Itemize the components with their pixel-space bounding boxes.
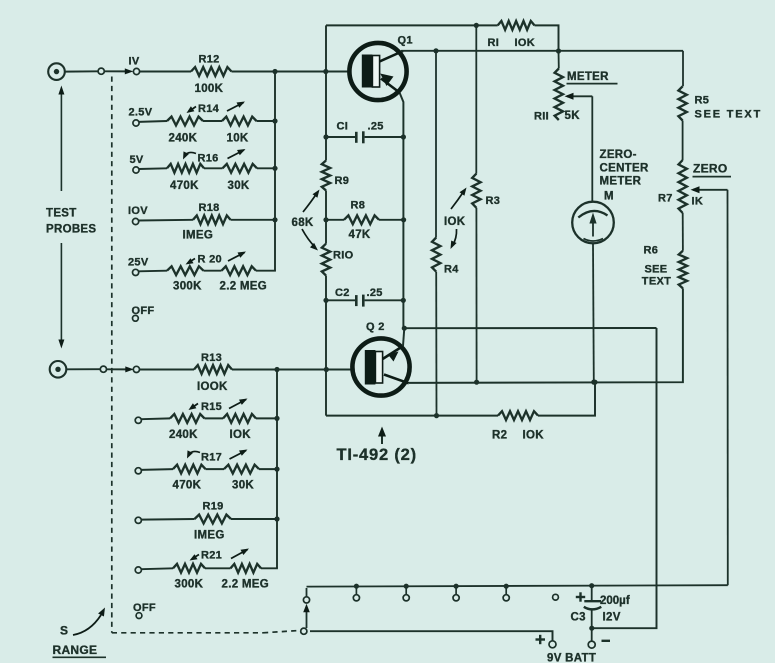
wire jack2 to switch: [67, 368, 101, 370]
junction C3 bottom: [589, 626, 594, 631]
svg-text:2.2 MEG: 2.2 MEG: [222, 579, 269, 591]
contact circle rowB4: [135, 517, 141, 523]
probes pointer line upper: [60, 92, 62, 191]
wire R14 to bus: [257, 120, 276, 122]
junction R8 left rail: [323, 217, 328, 222]
contact circle rowB2: [135, 417, 141, 423]
svg-text:R9: R9: [335, 175, 350, 187]
svg-text:RIO: RIO: [333, 250, 354, 262]
switch pole lower circle: [301, 628, 307, 634]
junction emitter rail bottom: [402, 326, 407, 331]
svg-text:R15: R15: [201, 401, 222, 413]
svg-text:RANGE: RANGE: [53, 643, 98, 657]
junction bus row2: [272, 118, 277, 123]
arrow R21 left: [193, 555, 200, 559]
wire R15 to bus: [256, 417, 277, 419]
svg-text:R12: R12: [199, 54, 220, 66]
R3 line lower segment: [475, 208, 477, 382]
wiper arrowhead row2: [125, 366, 134, 372]
svg-text:TI-492 (2): TI-492 (2): [337, 446, 417, 464]
wire R16 mid: [204, 167, 223, 169]
svg-text:OFF: OFF: [132, 305, 155, 317]
capacitor C3 plates: [584, 600, 601, 602]
svg-text:5V: 5V: [130, 154, 144, 166]
R11 top lead: [558, 51, 560, 69]
wire C1 left: [326, 136, 355, 138]
svg-text:M: M: [604, 191, 614, 203]
junction top bus R3 line: [474, 23, 479, 28]
resistor R1 10K: [498, 21, 535, 30]
svg-text:TEXT: TEXT: [642, 276, 671, 288]
wiper drop to meter: [591, 96, 593, 201]
resistor R2 10K: [498, 411, 538, 420]
svg-text:300K: 300K: [175, 579, 204, 591]
wire C2 right: [365, 299, 404, 301]
contact OFF circle bottom: [136, 613, 142, 619]
wiper arrowhead row1: [125, 68, 134, 74]
arrow R15 left: [192, 404, 199, 409]
svg-text:30K: 30K: [228, 180, 250, 192]
svg-text:R4: R4: [444, 264, 459, 276]
wire R1 right + drop: [535, 25, 559, 51]
resistor R18 1MEG: [193, 215, 231, 224]
R7-R6 wire: [682, 213, 684, 251]
svg-text:C2: C2: [335, 287, 350, 299]
bottom rail left: [326, 415, 498, 417]
minus sign battery: [602, 640, 611, 642]
svg-text:CENTER: CENTER: [600, 163, 649, 175]
wire contact to R13: [140, 369, 194, 371]
svg-text:METER: METER: [600, 176, 642, 188]
svg-text:47K: 47K: [349, 229, 371, 241]
junction bus rowB2: [274, 416, 279, 421]
dashed switch linkage horizontal: [112, 632, 263, 634]
trimmer arrow R15: [229, 400, 246, 409]
wire R14 mid: [203, 120, 222, 122]
junction R2 meter node: [592, 380, 597, 385]
probes arrowhead up: [58, 86, 64, 95]
svg-text:9V BATT: 9V BATT: [547, 653, 596, 663]
wire rowB5 lead: [141, 567, 173, 570]
wire R13 to Q2 base: [232, 369, 352, 371]
battery contact 4: [504, 584, 509, 589]
svg-text:PROBES: PROBES: [46, 224, 96, 236]
arrow R14 left: [190, 107, 197, 112]
svg-text:R14: R14: [198, 103, 220, 115]
wire R21 mid: [205, 567, 231, 569]
junction R3 bottom: [474, 380, 479, 385]
wire R12 to Q1 base: [232, 71, 349, 73]
svg-text:200µf: 200µf: [600, 595, 630, 607]
svg-text:IOK: IOK: [523, 430, 545, 442]
battery contact 3: [454, 584, 459, 589]
resistor R14b 10K: [222, 117, 257, 126]
probe jack J1: [48, 63, 65, 80]
pole stub: [306, 588, 308, 597]
arrow 10K to R3: [451, 191, 464, 209]
resistor R15b 10K: [223, 414, 256, 423]
contact R13 circle: [133, 366, 139, 372]
junction bus row3: [272, 166, 277, 171]
svg-text:R8: R8: [351, 200, 366, 212]
Q2 emitter top wire: [404, 327, 656, 329]
trimmer arrow R16: [228, 150, 245, 159]
bus wire top network: [274, 72, 276, 271]
wire rowB2 lead: [141, 417, 170, 420]
wire rowB3 lead: [141, 468, 173, 471]
svg-text:100K: 100K: [195, 83, 224, 95]
battery contact 2: [404, 584, 409, 589]
junction bus bottom row1: [274, 367, 279, 372]
battery plus wire: [310, 631, 553, 641]
wire R8 right: [379, 219, 404, 221]
battery contact 1: [354, 584, 359, 589]
trimmer arrow R20: [228, 253, 245, 262]
svg-text:S: S: [60, 624, 68, 638]
wire 2.5V lead: [139, 120, 167, 123]
transistor Q1: [349, 43, 406, 100]
svg-text:IOK: IOK: [515, 37, 535, 49]
left rail upper segment: [325, 25, 327, 160]
resistor R17b 30K: [224, 465, 259, 474]
svg-text:R18: R18: [199, 202, 220, 214]
resistor R20a 300K: [167, 266, 204, 275]
contact OFF circle top: [133, 315, 139, 321]
wire switch wiper row1: [105, 70, 128, 72]
battery bus wire: [307, 585, 728, 586]
svg-text:30K: 30K: [232, 480, 254, 492]
contact 2.5V circle: [133, 120, 139, 126]
svg-text:R3: R3: [486, 195, 501, 207]
resistor R21b 2.2MEG: [231, 564, 262, 573]
junction C1 right rail: [401, 134, 406, 139]
arrow S to linkage: [73, 615, 101, 635]
R7 wiper: [693, 189, 728, 191]
junction R1-R11 node: [556, 48, 561, 53]
dashed switch linkage vertical: [111, 77, 113, 633]
C3 top stub: [591, 586, 593, 601]
arrow R17 left: [189, 451, 201, 455]
underline ZERO: [693, 176, 732, 178]
svg-text:R2: R2: [492, 430, 507, 442]
svg-text:SEE TEXT: SEE TEXT: [695, 109, 763, 121]
junction bus top row1: [272, 69, 277, 74]
resistor R16b 30K: [223, 164, 258, 173]
transistor Q2: [352, 338, 409, 395]
resistor R6: [679, 251, 687, 289]
svg-text:R6: R6: [644, 245, 659, 257]
contact 1V circle: [133, 68, 139, 74]
resistor R20b 2.2MEG: [222, 266, 257, 275]
contact circle rowB3: [135, 468, 141, 474]
wire 25V lead: [138, 270, 167, 273]
wire R16 to bus: [257, 167, 275, 169]
arrow R20 left: [189, 259, 196, 263]
svg-text:R21: R21: [201, 550, 222, 562]
pole arrow: [306, 609, 308, 628]
svg-text:68K: 68K: [292, 217, 314, 229]
switch pole upper circle: [303, 597, 309, 603]
contact 25V circle: [133, 269, 139, 275]
svg-text:RII: RII: [534, 111, 549, 123]
contact 5V circle: [133, 167, 139, 173]
arrow R16 left: [185, 152, 197, 156]
svg-text:R 20: R 20: [198, 254, 222, 266]
plus sign battery: [536, 638, 546, 640]
probes pointer line lower: [60, 243, 62, 341]
svg-text:240K: 240K: [169, 133, 198, 145]
resistor R5: [678, 86, 686, 120]
wire C2 left: [326, 299, 355, 301]
junction collector R4line: [433, 48, 438, 53]
svg-text:IMEG: IMEG: [194, 530, 225, 542]
C3 bottom lead: [591, 609, 593, 642]
wire R8 left: [326, 219, 344, 221]
svg-text:R17: R17: [201, 452, 222, 464]
svg-text:ZERO-: ZERO-: [600, 149, 637, 161]
R5-R7 wire: [682, 121, 684, 161]
junction C3 top: [589, 583, 594, 588]
svg-text:IK: IK: [692, 196, 704, 208]
wire R21 to bus corner: [261, 567, 278, 569]
wire 1V to R12: [140, 71, 191, 73]
svg-text:SEE: SEE: [645, 264, 668, 276]
collector wire corner drop: [682, 51, 684, 87]
arrow 10K to R4: [453, 229, 457, 246]
resistor R15a 240K: [170, 414, 205, 423]
junction bus rowB3: [274, 467, 279, 472]
probes arrowhead down: [58, 340, 64, 349]
resistor R13: [194, 365, 232, 374]
meter M zero-center: [572, 202, 614, 244]
dashed switch linkage diagonal: [263, 631, 299, 633]
junction C1 left rail: [323, 134, 328, 139]
svg-text:R19: R19: [203, 501, 224, 513]
resistor R12: [191, 67, 232, 76]
bottom rail right: [538, 382, 595, 415]
svg-text:25V: 25V: [128, 257, 149, 269]
svg-text:2.5V: 2.5V: [129, 107, 153, 119]
svg-text:ZERO: ZERO: [693, 162, 728, 176]
svg-text:470K: 470K: [173, 480, 202, 492]
resistor R8 47K: [344, 215, 379, 224]
left rail lower segment: [325, 276, 327, 416]
svg-text:METER: METER: [567, 71, 609, 83]
svg-text:I2V: I2V: [603, 612, 621, 624]
trimmer arrow R14: [227, 103, 244, 112]
terminal circle row1: [98, 68, 104, 74]
resistor R19 1MEG: [195, 515, 232, 524]
collector wire Q1: [401, 50, 683, 52]
battery plus circle: [549, 641, 556, 648]
resistor R7 1K: [679, 160, 687, 213]
wire rowB4 lead: [141, 518, 194, 521]
underline METER: [567, 83, 618, 85]
underline RANGE: [53, 656, 107, 658]
arrow 68K to R9: [303, 193, 317, 212]
svg-text:C3: C3: [571, 612, 586, 624]
svg-text:10K: 10K: [227, 133, 249, 145]
contact 10V circle: [133, 218, 139, 224]
contact circle rowB5: [135, 567, 141, 573]
svg-text:RI: RI: [488, 37, 500, 49]
R4 line upper segment: [435, 51, 437, 238]
svg-text:R16: R16: [198, 153, 219, 165]
battery contact off circle: [553, 594, 559, 600]
junction C2 right rail: [401, 298, 406, 303]
wire R18 to bus: [231, 219, 276, 221]
svg-text:CI: CI: [337, 121, 349, 133]
junction bus rowB4: [274, 516, 279, 521]
svg-text:240K: 240K: [169, 429, 198, 441]
wire R17 to bus: [259, 468, 277, 470]
resistor R16a 470K: [167, 164, 204, 173]
resistor R4 10K: [432, 238, 440, 272]
wire R20 mid: [204, 270, 222, 272]
wire R19 to bus: [231, 518, 277, 520]
svg-text:R5: R5: [695, 95, 710, 107]
trimmer arrow R17: [230, 451, 247, 460]
label arrow TI-492: [381, 434, 383, 444]
R4 line lower segment: [435, 272, 437, 416]
resistor R17a 470K: [173, 465, 206, 474]
trimmer arrow R21: [231, 550, 248, 559]
junction C2 left rail: [323, 298, 328, 303]
junction bottom rail R4: [434, 413, 439, 418]
probe jack J2: [50, 361, 67, 378]
wire R20 to bus corner: [256, 270, 276, 272]
resistor R11 5K: [555, 69, 563, 121]
junction bus row4: [272, 217, 277, 222]
svg-text:470K: 470K: [170, 180, 199, 192]
emitter rail wire: [400, 93, 404, 329]
resistor R3 10K: [472, 174, 480, 208]
battery minus drop: [593, 328, 657, 628]
resistor R10 68K: [322, 244, 330, 276]
svg-text:IOV: IOV: [128, 205, 148, 217]
zero wiper drop wire: [727, 190, 729, 585]
wire R15 mid: [205, 417, 224, 419]
wire Q2 emitter to rail: [403, 328, 404, 346]
svg-text:IOOK: IOOK: [197, 381, 228, 393]
svg-text:2.2 MEG: 2.2 MEG: [220, 281, 267, 293]
wire R17 mid: [206, 468, 225, 470]
svg-text:IOK: IOK: [444, 216, 466, 228]
svg-text:Q 2: Q 2: [366, 321, 385, 333]
bus wire bottom network: [276, 370, 278, 569]
wire 5V lead: [139, 167, 167, 170]
resistor R14a 240K: [167, 117, 203, 126]
meter bottom lead: [592, 243, 595, 382]
wire jack1 to switch: [65, 70, 98, 72]
svg-text:R7: R7: [658, 193, 673, 205]
resistor R21a 300K: [173, 564, 205, 573]
wire 10V lead: [138, 219, 193, 222]
battery minus circle: [588, 641, 595, 648]
svg-text:.25: .25: [367, 287, 383, 299]
svg-text:5K: 5K: [565, 110, 581, 122]
resistor R9 68K: [322, 161, 330, 191]
junction R8 right rail: [401, 217, 406, 222]
R11 wiper: [567, 95, 592, 97]
junction rail row1: [323, 69, 328, 74]
junction meter bottom: [591, 380, 596, 385]
svg-text:Q1: Q1: [398, 35, 413, 47]
wire switch wiper row2: [107, 368, 128, 370]
svg-text:IV: IV: [129, 56, 140, 68]
svg-text:IMEG: IMEG: [183, 230, 214, 242]
svg-text:300K: 300K: [173, 281, 202, 293]
R6 bottom wire: [409, 288, 683, 383]
junction rail row Q2: [324, 367, 329, 372]
arrow 68K to R10: [302, 229, 315, 247]
R3 line upper segment: [475, 25, 477, 173]
capacitor C2 plates: [355, 295, 358, 306]
svg-text:OFF: OFF: [133, 602, 156, 614]
capacitor C1 plates: [355, 132, 358, 143]
svg-text:TEST: TEST: [46, 208, 77, 220]
svg-text:IOK: IOK: [230, 429, 252, 441]
wire C1 right: [365, 136, 404, 138]
svg-text:.25: .25: [368, 121, 384, 133]
terminal circle row2: [100, 366, 106, 372]
rail top bus wire: [326, 24, 498, 26]
plus sign C3: [576, 596, 585, 598]
left rail mid segment: [325, 191, 327, 244]
svg-text:R13: R13: [201, 352, 222, 364]
